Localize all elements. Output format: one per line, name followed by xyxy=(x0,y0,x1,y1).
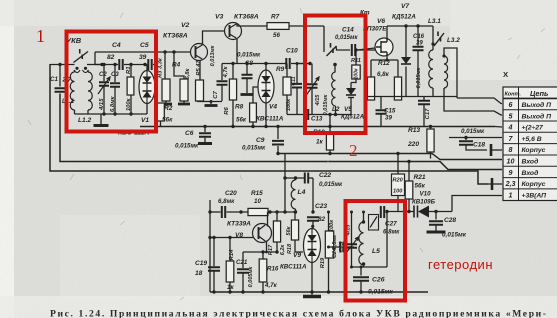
ground at V9 xyxy=(303,295,321,298)
svg-text:V9: V9 xyxy=(293,252,301,259)
resistor R11 xyxy=(357,49,375,51)
svg-text:С20: С20 xyxy=(225,190,237,197)
svg-text:56к: 56к xyxy=(162,117,173,124)
resistor R6 xyxy=(232,64,234,80)
svg-text:С9: С9 xyxy=(256,137,265,144)
svg-text:100: 100 xyxy=(393,189,403,195)
wire V6 drain to L3.1 xyxy=(386,26,388,40)
switch Кв between L3.1 L3.2 xyxy=(434,33,444,46)
svg-text:220: 220 xyxy=(407,141,419,148)
svg-text:КТ368А: КТ368А xyxy=(163,33,188,40)
svg-text:С22: С22 xyxy=(319,172,331,179)
svg-text:4,7к: 4,7к xyxy=(264,282,278,289)
red annotation box 2 xyxy=(305,16,366,134)
capacitor C21 xyxy=(242,252,244,268)
svg-text:V1: V1 xyxy=(141,117,149,124)
capacitor C27 xyxy=(381,206,384,218)
svg-text:Вход: Вход xyxy=(522,169,539,177)
svg-text:R9: R9 xyxy=(276,66,285,73)
wire V8 supply vertical xyxy=(209,200,211,292)
diode V5 КД512А xyxy=(350,83,352,89)
svg-text:L4: L4 xyxy=(298,189,306,196)
resistor R15 xyxy=(248,208,268,215)
svg-text:6,8мк: 6,8мк xyxy=(332,235,338,249)
svg-text:1к: 1к xyxy=(316,139,324,146)
resistor R8 xyxy=(253,87,258,103)
svg-text:V2: V2 xyxy=(181,22,190,29)
svg-text:+(2÷27: +(2÷27 xyxy=(522,125,545,132)
svg-text:С7: С7 xyxy=(213,91,219,99)
varicap V4 КВС111А xyxy=(265,64,267,71)
svg-text:Корпус: Корпус xyxy=(522,147,546,154)
wire L2 top / Кт switch xyxy=(323,26,325,52)
svg-text:V6: V6 xyxy=(377,18,385,25)
capacitor C18 xyxy=(465,138,467,141)
svg-text:0,015мк: 0,015мк xyxy=(175,143,199,150)
wire C4/C5 rail xyxy=(94,52,96,65)
transistor V8 КТ339А xyxy=(253,224,272,243)
svg-text:R7: R7 xyxy=(271,14,280,21)
wire oscillator injection from R9 xyxy=(284,154,286,213)
svg-text:С6: С6 xyxy=(185,130,194,137)
svg-text:6,8к: 6,8к xyxy=(185,67,191,79)
svg-text:С27: С27 xyxy=(385,221,397,228)
svg-text:0,015мк: 0,015мк xyxy=(335,35,358,41)
svg-text:R20: R20 xyxy=(393,178,404,184)
svg-text:С3: С3 xyxy=(111,72,119,78)
svg-text:4/15: 4/15 xyxy=(315,94,321,107)
svg-text:0,015мк: 0,015мк xyxy=(442,232,467,239)
capacitor C24 xyxy=(327,246,330,249)
svg-text:R15: R15 xyxy=(251,190,263,197)
connector X table xyxy=(503,87,557,201)
resistor R16 xyxy=(262,252,264,259)
svg-text:4,7к: 4,7к xyxy=(223,65,229,78)
red annotation box 3 heterodyne xyxy=(346,201,406,301)
svg-text:С26: С26 xyxy=(372,277,385,284)
switch УКВ xyxy=(74,52,89,63)
transistor V3 КТ368А xyxy=(225,23,242,40)
svg-text:L1.2: L1.2 xyxy=(78,117,92,124)
svg-text:8: 8 xyxy=(509,146,513,154)
svg-text:R21: R21 xyxy=(414,174,426,181)
capacitor C3 xyxy=(114,65,116,83)
svg-text:1: 1 xyxy=(509,191,513,199)
svg-text:56к: 56к xyxy=(286,225,292,235)
resistor R2 xyxy=(157,103,165,121)
resistor R13 xyxy=(429,125,432,128)
svg-text:V5: V5 xyxy=(344,106,352,113)
svg-text:1к: 1к xyxy=(227,284,234,291)
wire +5,6V to pin 7 xyxy=(449,137,502,139)
wire ground bus bottom xyxy=(210,291,428,293)
wire C22 to C23 node xyxy=(312,178,314,212)
transistor V6 КП307Е field-effect xyxy=(357,48,375,50)
svg-text:Конт.: Конт. xyxy=(505,92,522,98)
svg-text:КВС111А: КВС111А xyxy=(256,116,284,123)
varicap V1 КВС-111А xyxy=(146,65,148,71)
resistor R4 xyxy=(174,52,184,79)
svg-text:С2: С2 xyxy=(99,72,107,78)
inductor L5 xyxy=(363,212,365,222)
capacitor C1 xyxy=(55,88,66,92)
resistor R10 xyxy=(329,127,331,134)
svg-text:С19: С19 xyxy=(195,260,207,267)
svg-text:+3В(АП: +3В(АП xyxy=(522,192,547,199)
svg-text:10: 10 xyxy=(254,198,261,205)
inductor L5 core trimmer xyxy=(369,215,379,231)
svg-text:КД512А: КД512А xyxy=(392,14,416,21)
svg-text:V7: V7 xyxy=(401,3,409,10)
svg-text:Выход П: Выход П xyxy=(522,101,552,109)
svg-text:КТ339А: КТ339А xyxy=(227,221,251,228)
svg-text:9: 9 xyxy=(509,169,513,177)
transistor V2 КТ368А xyxy=(191,44,208,61)
wire antenna input net (Вход pin 9) xyxy=(60,94,502,170)
svg-text:0,015мк: 0,015мк xyxy=(237,52,261,59)
inductor L3.2 xyxy=(442,54,445,57)
capacitor C4 xyxy=(119,59,122,70)
ground at L1.2 xyxy=(100,114,102,124)
svg-text:КВ109Б: КВ109Б xyxy=(412,199,436,206)
svg-text:6: 6 xyxy=(509,101,513,109)
capacitor C13 xyxy=(305,109,308,120)
svg-text:6,8мк: 6,8мк xyxy=(383,229,400,236)
wire V2 base rail xyxy=(158,51,191,53)
svg-text:С11: С11 xyxy=(291,76,297,85)
svg-text:R14: R14 xyxy=(229,249,235,261)
svg-text:0,015мк: 0,015мк xyxy=(416,66,422,88)
resistor R7 xyxy=(267,23,289,30)
svg-text:R4: R4 xyxy=(172,62,181,69)
svg-text:С16: С16 xyxy=(413,34,425,40)
svg-text:82: 82 xyxy=(107,54,115,61)
svg-text:39: 39 xyxy=(385,115,392,122)
svg-text:4/15: 4/15 xyxy=(99,98,105,111)
capacitor C20 xyxy=(222,206,225,218)
capacitor C8 xyxy=(246,64,248,75)
svg-text:2: 2 xyxy=(349,141,358,160)
svg-text:V3: V3 xyxy=(215,14,224,21)
svg-text:С10: С10 xyxy=(286,48,298,55)
svg-text:КТ368А: КТ368А xyxy=(234,14,259,21)
capacitor C11 xyxy=(296,64,298,84)
wire V6 source rail xyxy=(386,54,388,60)
wire box1 bottom rail xyxy=(75,113,148,115)
svg-text:0,015мк: 0,015мк xyxy=(323,93,329,115)
capacitor C15 xyxy=(380,97,382,110)
svg-text:82: 82 xyxy=(318,216,326,223)
capacitor C19 xyxy=(213,238,215,267)
svg-text:R12: R12 xyxy=(378,60,390,67)
resistor R17 xyxy=(276,212,278,221)
svg-text:Корпус: Корпус xyxy=(522,181,546,188)
svg-text:39: 39 xyxy=(139,54,147,61)
svg-text:L5: L5 xyxy=(372,248,380,255)
capacitor C23 xyxy=(307,217,319,221)
svg-text:С8: С8 xyxy=(245,60,253,67)
svg-text:56: 56 xyxy=(273,32,280,39)
resistor R12a xyxy=(367,77,374,100)
svg-text:С18: С18 xyxy=(473,142,485,149)
resistor R5 xyxy=(196,80,204,101)
capacitor C9 xyxy=(277,127,279,140)
svg-text:L3.2: L3.2 xyxy=(447,37,460,44)
wire L5 feedback tap xyxy=(352,266,388,268)
red annotation box 1 xyxy=(67,32,157,132)
svg-text:4: 4 xyxy=(508,124,513,132)
svg-text:2,3: 2,3 xyxy=(505,180,516,188)
svg-text:R16: R16 xyxy=(267,266,279,273)
inductor L1.2 xyxy=(88,72,92,110)
trimmer capacitor C12 xyxy=(311,64,313,84)
wire module shield outline to Корпус xyxy=(50,64,488,184)
svg-text:Цепь: Цепь xyxy=(530,89,548,98)
trimmer capacitor C25 xyxy=(351,212,353,244)
svg-text:R6: R6 xyxy=(224,107,230,115)
resistor R18 xyxy=(294,212,296,220)
svg-text:гетеродин: гетеродин xyxy=(428,257,493,272)
svg-text:V10: V10 xyxy=(420,191,432,198)
svg-text:0,005мк: 0,005мк xyxy=(248,265,254,287)
wire mixer ground rail xyxy=(365,96,457,98)
resistor R12 xyxy=(394,77,401,100)
capacitor C10 xyxy=(286,58,289,69)
svg-text:100к: 100к xyxy=(126,98,132,111)
svg-text:С23: С23 xyxy=(315,203,327,210)
wire V8 emitter rail xyxy=(243,251,277,253)
svg-text:С15: С15 xyxy=(384,108,396,115)
capacitor C16 xyxy=(417,26,419,46)
svg-text:0,015мк: 0,015мк xyxy=(319,181,343,188)
svg-text:6,8мк: 6,8мк xyxy=(218,198,235,205)
inductor L2 xyxy=(334,65,336,73)
trimmer capacitor C2 xyxy=(103,65,105,82)
resistor R3 xyxy=(164,52,166,79)
svg-text:С13: С13 xyxy=(311,116,323,123)
inductor L4 xyxy=(291,180,295,209)
svg-text:R8: R8 xyxy=(235,104,244,111)
svg-text:L2: L2 xyxy=(332,106,340,113)
capacitor C17 xyxy=(423,97,425,101)
capacitor C14 xyxy=(352,44,355,56)
svg-text:С1: С1 xyxy=(50,76,58,83)
diode V7 КД512А xyxy=(405,26,407,57)
svg-text:С5: С5 xyxy=(140,42,149,49)
svg-text:R5 47: R5 47 xyxy=(196,60,202,76)
svg-text:R11: R11 xyxy=(351,58,361,64)
svg-text:39: 39 xyxy=(416,41,423,47)
wire top input rail xyxy=(50,64,75,66)
svg-text:100к: 100к xyxy=(329,219,335,232)
varicap V9 КВС111А xyxy=(311,225,314,228)
wire Вход pin 10 net xyxy=(278,154,502,160)
svg-text:56к: 56к xyxy=(236,117,247,124)
svg-text:С28: С28 xyxy=(444,217,456,224)
resistor R19 xyxy=(328,212,330,233)
svg-text:R19: R19 xyxy=(320,257,326,268)
svg-text:R3 3,3к: R3 3,3к xyxy=(158,57,164,78)
wire to pin 1 +3V xyxy=(452,196,502,212)
svg-text:Выход П: Выход П xyxy=(522,112,552,120)
capacitor C26 xyxy=(360,267,362,276)
capacitor C28 xyxy=(435,212,437,220)
diode V10 КВ109Б varicap xyxy=(388,211,414,213)
inductor L3.1 xyxy=(432,26,434,44)
svg-text:0,013мк: 0,013мк xyxy=(210,44,216,66)
svg-text:6,2к: 6,2к xyxy=(280,244,286,256)
svg-text:L3.1: L3.1 xyxy=(428,18,441,25)
svg-text:6,8мк: 6,8мк xyxy=(110,95,116,112)
svg-text:6,8к: 6,8к xyxy=(377,71,390,78)
resistor R1 xyxy=(130,65,132,78)
svg-text:+5,6 В: +5,6 В xyxy=(522,136,542,143)
svg-text:1: 1 xyxy=(36,26,45,46)
wire heterodyne top rail xyxy=(210,211,221,213)
svg-text:10: 10 xyxy=(507,158,515,166)
resistor R9 xyxy=(286,64,288,78)
capacitor C6 xyxy=(204,127,206,133)
capacitor C22 xyxy=(285,177,304,179)
svg-text:0,015мк: 0,015мк xyxy=(242,145,266,152)
svg-text:100к: 100к xyxy=(286,98,292,111)
wire tuning bus +2..27V to pin 4 xyxy=(140,126,495,128)
svg-text:Вход: Вход xyxy=(522,158,539,166)
svg-text:С14: С14 xyxy=(342,27,354,34)
wire mixer input node xyxy=(296,63,310,65)
resistor R20 xyxy=(397,154,399,175)
svg-text:R1: R1 xyxy=(126,66,132,74)
wire ground rail RF amp xyxy=(197,101,222,103)
svg-text:R17: R17 xyxy=(268,244,274,255)
wire mixer bottom rail xyxy=(287,114,304,116)
capacitor C7 xyxy=(221,64,223,81)
svg-text:С21: С21 xyxy=(236,259,248,266)
capacitor C5 xyxy=(148,59,151,70)
svg-text:X: X xyxy=(503,70,509,79)
svg-text:V4: V4 xyxy=(269,104,277,111)
resistor R14 xyxy=(229,238,231,262)
svg-text:R2: R2 xyxy=(164,105,173,112)
svg-text:0,015мк: 0,015мк xyxy=(461,128,485,135)
svg-text:18: 18 xyxy=(195,270,203,277)
svg-text:56к: 56к xyxy=(415,183,426,190)
svg-text:100к: 100к xyxy=(354,68,360,79)
svg-text:С4: С4 xyxy=(112,42,121,49)
resistor R21 xyxy=(407,160,410,163)
svg-text:КВС111А: КВС111А xyxy=(280,264,307,271)
svg-text:С17: С17 xyxy=(425,108,431,120)
wire V3 emitter rail xyxy=(222,63,287,65)
inductor L1.1 xyxy=(70,72,74,110)
svg-text:R13: R13 xyxy=(408,127,420,134)
